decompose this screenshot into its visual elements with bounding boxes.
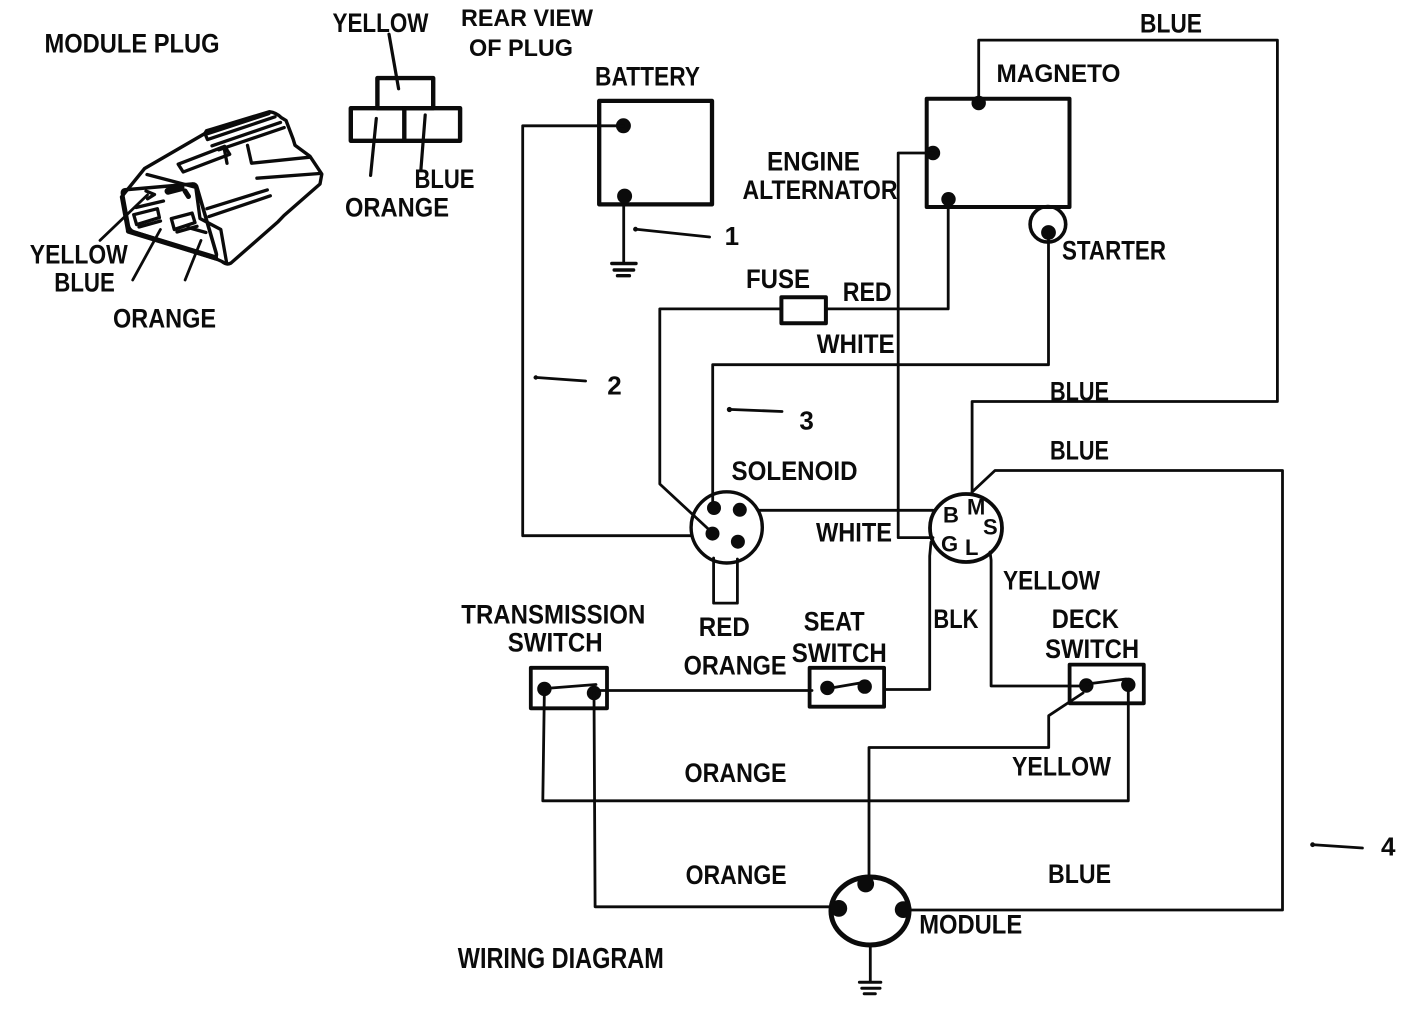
- solenoid: [691, 492, 762, 563]
- battery terminal - dot: [617, 189, 632, 204]
- wire ORANGE transmission to seat switch: [600, 689, 812, 692]
- svg-text:WHITE: WHITE: [817, 329, 895, 359]
- module plug connector drawing: [122, 112, 322, 264]
- svg-text:BLUE: BLUE: [1048, 859, 1111, 889]
- leader line 3: [729, 409, 782, 411]
- magneto: [927, 99, 1070, 207]
- magneto pin dot bottom: [941, 192, 955, 206]
- starter: [1030, 207, 1066, 243]
- svg-text:RED: RED: [843, 277, 892, 307]
- deck switch contact dot right: [1121, 678, 1135, 692]
- rear view leader yellow: [389, 34, 399, 89]
- wire WHITE solenoid to key switch: [758, 509, 933, 512]
- svg-text:L: L: [965, 535, 978, 560]
- svg-text:MAGNETO: MAGNETO: [997, 60, 1121, 88]
- svg-text:RED: RED: [699, 612, 750, 642]
- svg-text:SWITCH: SWITCH: [508, 628, 603, 658]
- svg-text:BLUE: BLUE: [1140, 8, 1202, 38]
- svg-text:WHITE: WHITE: [816, 517, 892, 547]
- seat switch blade: [828, 683, 863, 689]
- module pin dot right: [895, 901, 912, 918]
- svg-text:FUSE: FUSE: [746, 264, 810, 294]
- leader line 4: [1312, 845, 1363, 848]
- svg-text:BLK: BLK: [933, 604, 978, 634]
- svg-text:G: G: [941, 532, 958, 557]
- svg-text:ORANGE: ORANGE: [345, 192, 449, 222]
- magneto pin dot top: [972, 96, 986, 110]
- svg-text:BLUE: BLUE: [1050, 435, 1109, 465]
- deck switch: [1070, 665, 1144, 704]
- solenoid pin dot bottom-right: [731, 535, 745, 549]
- seat switch contact dot right: [858, 679, 872, 693]
- svg-text:B: B: [943, 502, 959, 527]
- solenoid pin dot mid-left: [706, 527, 720, 541]
- transmission switch contact dot right: [587, 686, 601, 700]
- svg-text:BLUE: BLUE: [54, 268, 115, 298]
- seat switch: [810, 668, 885, 707]
- rear view leader orange: [371, 119, 377, 176]
- solenoid pin dot top-left: [707, 501, 721, 515]
- module pin dot top: [857, 876, 874, 893]
- svg-text:3: 3: [799, 405, 813, 435]
- wire battery+ to solenoid: [523, 126, 692, 536]
- key switch: [930, 494, 1002, 562]
- wire BLUE key switch to module: [903, 471, 1282, 911]
- svg-text:BLUE: BLUE: [415, 164, 475, 194]
- leader line 1: [635, 229, 710, 237]
- svg-text:WIRING DIAGRAM: WIRING DIAGRAM: [458, 943, 664, 975]
- svg-text:OF PLUG: OF PLUG: [469, 35, 573, 62]
- solenoid stem: [714, 558, 738, 603]
- svg-text:BATTERY: BATTERY: [595, 61, 700, 91]
- wire module to ground: [869, 944, 872, 981]
- wire BLUE magneto to key switch: [972, 40, 1277, 492]
- svg-text:SEAT: SEAT: [804, 606, 865, 636]
- module plug leader orange: [185, 240, 201, 280]
- svg-text:4: 4: [1381, 831, 1396, 861]
- module plug leader blue: [133, 230, 161, 281]
- svg-text:SOLENOID: SOLENOID: [732, 456, 858, 486]
- module pin dot left: [830, 900, 847, 917]
- svg-text:ALTERNATOR: ALTERNATOR: [743, 175, 898, 205]
- module plug leader yellow: [100, 195, 148, 241]
- wire YELLOW module to deck switch: [869, 693, 1083, 880]
- svg-text:YELLOW: YELLOW: [333, 8, 429, 38]
- battery terminal + dot: [616, 118, 631, 133]
- svg-text:MODULE PLUG: MODULE PLUG: [45, 29, 220, 59]
- wire BLK key switch to seat switch: [885, 542, 932, 690]
- svg-text:2: 2: [607, 371, 621, 401]
- wire ORANGE transmission to deck switch: [543, 685, 1129, 801]
- svg-text:YELLOW: YELLOW: [1012, 751, 1111, 781]
- transmission switch contact dot left: [537, 682, 551, 696]
- svg-text:REAR VIEW: REAR VIEW: [461, 5, 593, 32]
- svg-text:ORANGE: ORANGE: [113, 304, 216, 334]
- ground battery: [612, 264, 636, 276]
- svg-text:SWITCH: SWITCH: [1045, 634, 1139, 664]
- svg-text:1: 1: [725, 221, 739, 251]
- svg-text:ORANGE: ORANGE: [686, 860, 787, 890]
- leader line 2: [535, 377, 586, 381]
- seat switch contact dot left: [820, 681, 834, 695]
- starter terminal dot: [1041, 225, 1056, 240]
- svg-text:STARTER: STARTER: [1062, 235, 1166, 265]
- transmission switch: [531, 668, 607, 709]
- solenoid pin dot top-right: [733, 503, 747, 517]
- rear view leader blue: [421, 115, 425, 170]
- wire battery- to ground: [622, 204, 625, 261]
- svg-text:BLUE: BLUE: [1050, 376, 1109, 406]
- battery: [599, 101, 712, 204]
- wire magneto left to key switch: [898, 153, 933, 538]
- svg-text:TRANSMISSION: TRANSMISSION: [461, 600, 645, 630]
- fuse: [781, 297, 826, 323]
- transmission switch blade: [545, 685, 596, 689]
- rear view plug body: [351, 78, 460, 141]
- wire RED fuse to magneto: [826, 199, 948, 309]
- module: [831, 877, 909, 945]
- ground module: [859, 982, 880, 994]
- wire fuse left to solenoid: [660, 309, 782, 532]
- deck switch contact dot left: [1079, 678, 1093, 692]
- wire WHITE starter to solenoid: [713, 233, 1049, 507]
- svg-text:YELLOW: YELLOW: [1003, 566, 1100, 596]
- wire YELLOW key switch to deck switch: [990, 552, 1086, 686]
- svg-text:ENGINE: ENGINE: [767, 146, 860, 176]
- deck switch blade: [1087, 679, 1126, 684]
- svg-text:DECK: DECK: [1052, 604, 1119, 634]
- svg-text:S: S: [983, 515, 998, 540]
- wire ORANGE transmission to module: [594, 693, 834, 907]
- svg-text:MODULE: MODULE: [919, 910, 1022, 940]
- svg-text:ORANGE: ORANGE: [685, 758, 787, 788]
- magneto pin dot left: [926, 146, 940, 160]
- svg-text:ORANGE: ORANGE: [684, 650, 787, 680]
- svg-text:YELLOW: YELLOW: [30, 240, 128, 270]
- svg-text:SWITCH: SWITCH: [792, 638, 887, 668]
